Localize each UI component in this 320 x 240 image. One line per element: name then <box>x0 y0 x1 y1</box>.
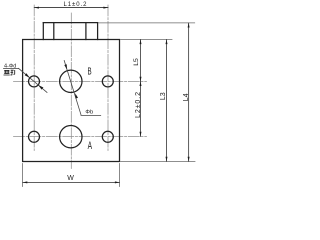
dimension line L4 <box>188 23 190 162</box>
dimension line L5 <box>140 40 142 82</box>
extension line block top right <box>121 39 173 41</box>
extension line W left <box>22 164 24 187</box>
arrow L1 right <box>103 7 108 9</box>
hole B large <box>60 70 82 92</box>
centerline vertical left holes <box>33 5 35 151</box>
hole bottom-right <box>102 131 113 142</box>
arrow L5 bottom <box>140 77 142 82</box>
arrow W left <box>23 181 28 183</box>
centerline horizontal row B <box>14 80 147 82</box>
arrow L2 bottom <box>140 132 142 137</box>
arrow L5 top <box>140 40 142 45</box>
svg-text:A: A <box>88 139 93 151</box>
svg-text:L2±0.2: L2±0.2 <box>135 92 142 118</box>
svg-text:L4: L4 <box>183 93 190 101</box>
svg-text:L1±0.2: L1±0.2 <box>64 2 88 8</box>
leader 4-phi-d diagonal <box>19 68 48 92</box>
svg-text:L5: L5 <box>133 58 140 66</box>
arrow L1 left <box>34 7 39 9</box>
boss right edge <box>97 23 99 40</box>
svg-text:L3: L3 <box>160 92 167 100</box>
arrow L4 bottom <box>188 157 190 162</box>
arrow leader phi-b lower <box>75 93 78 98</box>
arrow L3 bottom <box>166 157 168 162</box>
label tong-kong (through hole) hanzi approx <box>4 70 15 75</box>
arrow leader 4-phi-d lower <box>38 85 43 90</box>
svg-text:B: B <box>88 65 92 77</box>
extension line block bottom right <box>121 160 196 162</box>
arrow leader phi-b upper <box>64 64 67 69</box>
hole top-right <box>102 76 113 87</box>
dimension line L1 <box>34 7 108 9</box>
arrow L3 top <box>166 40 168 45</box>
arrow L4 top <box>188 23 190 28</box>
hole top-left <box>29 76 40 87</box>
dimension line L2 <box>140 81 142 136</box>
boss inner line 2 <box>85 23 87 40</box>
centerline vertical main <box>70 13 72 169</box>
leader 4-phi-d underline <box>4 68 19 70</box>
boss top edge <box>43 22 97 24</box>
arrow L2 top <box>140 81 142 86</box>
hole bottom-left <box>29 131 40 142</box>
dimension line L3 <box>166 40 168 162</box>
block outline <box>23 40 120 162</box>
arrow W right <box>115 181 120 183</box>
hole A large <box>60 126 82 148</box>
leader phi-b diagonal <box>64 61 81 115</box>
extension line boss top right <box>99 22 195 24</box>
dimension line W <box>23 181 120 183</box>
svg-text:Φb: Φb <box>85 110 93 116</box>
boss inner line 1 <box>53 23 55 40</box>
centerline horizontal row A <box>14 136 147 138</box>
extension line W right <box>119 164 121 187</box>
boss left edge <box>42 23 44 40</box>
svg-text:4-Φd: 4-Φd <box>4 63 16 69</box>
centerline vertical right holes <box>107 5 109 151</box>
arrow leader 4-phi-d upper <box>25 73 30 78</box>
svg-text:W: W <box>67 175 74 182</box>
leader phi-b shelf <box>81 114 101 116</box>
